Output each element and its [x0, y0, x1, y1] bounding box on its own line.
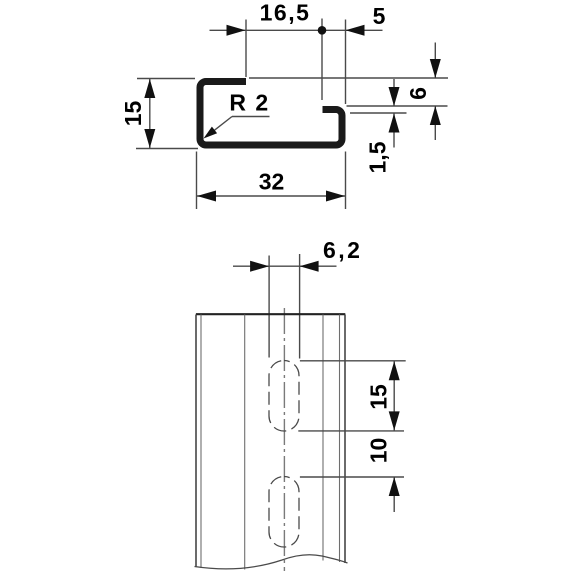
dimension 1,5 (right) — [393, 79, 395, 148]
dimension 6,2 — [233, 254, 337, 359]
extension line at right edge x=345.5 — [345, 20, 347, 105]
slot 2 (dashed stadium) — [269, 477, 299, 548]
svg-text:32: 32 — [259, 169, 285, 195]
dimension line 16,5 / 5 — [210, 19, 383, 105]
svg-text:15: 15 — [366, 384, 392, 410]
dimension 6 (right) — [434, 43, 436, 141]
svg-text:6: 6 — [405, 87, 431, 100]
extension line at lip end x=322 — [321, 19, 323, 101]
svg-text:16,5: 16,5 — [260, 0, 311, 26]
svg-text:15: 15 — [120, 101, 146, 127]
svg-text:5: 5 — [373, 3, 386, 29]
svg-text:R 2: R 2 — [229, 90, 269, 116]
front view outline — [196, 313, 345, 315]
arrow right-pointing tip at 245.5,30.3 — [227, 25, 246, 36]
dimensions 15 / 10 (right) — [298, 361, 405, 512]
dimension 32 (bottom of top drawing) — [197, 152, 346, 210]
right side extension lines — [249, 78, 448, 113]
svg-text:1,5: 1,5 — [365, 141, 391, 173]
break (wave) line — [195, 555, 348, 569]
rail profile (thick C-shape) — [200, 82, 342, 146]
dimension 15 (left) — [136, 79, 198, 149]
slot 1 (dashed stadium) — [269, 361, 299, 432]
extension line at flange end x=246 — [245, 20, 247, 78]
svg-text:6,2: 6,2 — [323, 237, 362, 263]
node dot at 322,30.3 — [318, 26, 327, 35]
inner fold lines — [201, 315, 340, 570]
svg-text:10: 10 — [366, 438, 392, 464]
center line (dash-dot) — [283, 308, 285, 571]
arrow left-pointing tip at 345.5,30.3 — [346, 25, 365, 36]
